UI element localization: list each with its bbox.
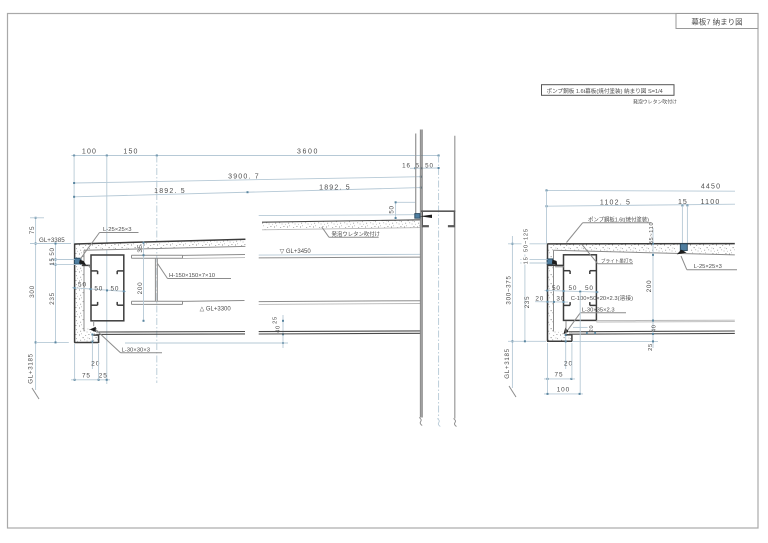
svg-text:25: 25 [99, 373, 108, 380]
label L-25x25x3 [80, 227, 138, 259]
label bright coating [582, 244, 633, 264]
svg-text:1892. 5: 1892. 5 [319, 184, 351, 191]
svg-text:ブライト墨打ち: ブライト墨打ち [601, 257, 633, 264]
svg-text:50: 50 [49, 247, 56, 255]
svg-text:40: 40 [652, 324, 658, 332]
extension line x=106.8 [106, 156, 108, 385]
GL+3185 right view [504, 348, 516, 397]
break squiggles [419, 418, 456, 427]
svg-text:25: 25 [273, 316, 279, 324]
svg-text:16: 16 [402, 162, 411, 169]
GL+3300 level line left segment [183, 300, 245, 303]
box bottom level lines right [596, 320, 734, 322]
wall double line [420, 130, 422, 418]
svg-text:20: 20 [589, 325, 595, 333]
svg-text:100: 100 [557, 387, 570, 394]
L-30 angle at box bottom [90, 321, 96, 332]
extension line x=546.5 [546, 190, 548, 243]
dimension row right: 1102.5/15/1100 [546, 199, 736, 207]
svg-text:50: 50 [425, 162, 434, 169]
centerline x=438.6 [438, 156, 440, 419]
legend box [542, 85, 678, 106]
dimension row: 100/150/3600 [72, 149, 440, 157]
svg-text:△ GL+3300: △ GL+3300 [200, 306, 232, 312]
dimension 50/50/50 right [545, 285, 600, 293]
svg-text:75: 75 [555, 372, 564, 379]
bottom dim 100 right [544, 387, 583, 395]
hanger channel at wall [421, 211, 455, 227]
svg-text:1100: 1100 [701, 199, 721, 206]
svg-text:L-25×25×3: L-25×25×3 [103, 227, 132, 233]
label H-150x150x7x10 [158, 264, 232, 280]
bottom dim 20 left [91, 334, 100, 370]
dimension 50 at wall top [259, 201, 416, 219]
dimension 20/30 right [535, 295, 568, 303]
dimension 16/5/50 [402, 162, 439, 169]
channel box assembly left [91, 255, 124, 321]
channel box assembly right [564, 255, 597, 321]
svg-text:発泡ウレタン吹付け: 発泡ウレタン吹付け [633, 98, 677, 105]
bottom dim 75 right [544, 343, 575, 394]
svg-text:GL+3185: GL+3185 [28, 353, 35, 384]
svg-text:35: 35 [137, 244, 144, 252]
dimension 35 [137, 242, 145, 258]
svg-text:235: 235 [524, 296, 531, 308]
svg-text:35~110: 35~110 [649, 222, 655, 245]
svg-text:GL+3385: GL+3385 [39, 237, 65, 244]
right vertical dim line 35~110/200/40/25 [646, 222, 657, 351]
label pump steel plate [567, 215, 652, 242]
dimension 3900.7 [73, 174, 422, 184]
dimension 25/40 right of box [125, 315, 288, 348]
svg-text:25: 25 [648, 343, 654, 351]
bottom edge double line right segment [259, 331, 421, 334]
svg-text:235: 235 [49, 292, 56, 305]
label GL+3300 [200, 306, 232, 312]
label L-30x35x2.3 [563, 307, 626, 334]
svg-text:50: 50 [78, 281, 87, 288]
svg-text:50: 50 [585, 285, 594, 292]
svg-text:200: 200 [646, 280, 653, 292]
anchor clip L-25 left [74, 258, 86, 266]
svg-text:50: 50 [110, 285, 119, 292]
foot level line right [572, 340, 658, 342]
svg-text:3600: 3600 [297, 149, 319, 156]
bottom edge double line right view [569, 331, 735, 334]
urethane band (stipple) [262, 220, 421, 230]
svg-text:50: 50 [94, 285, 103, 292]
wall line outer [415, 134, 417, 214]
svg-text:150: 150 [123, 149, 138, 156]
svg-text:4450: 4450 [701, 183, 721, 190]
svg-text:200: 200 [137, 282, 144, 295]
svg-text:▽ GL+3450: ▽ GL+3450 [280, 249, 312, 255]
extension line x=74 [73, 156, 75, 244]
svg-text:300: 300 [29, 285, 36, 298]
centerline x=156.8 [156, 156, 158, 384]
extension line x=682.4 [681, 205, 683, 243]
svg-text:15: 15 [678, 199, 688, 206]
svg-text:3900. 7: 3900. 7 [228, 174, 260, 181]
svg-text:300~375: 300~375 [505, 275, 512, 304]
anchor clip in slab right [677, 244, 688, 255]
svg-text:50: 50 [389, 205, 396, 213]
angle seat under clip [82, 265, 90, 267]
svg-text:50~125: 50~125 [524, 228, 530, 252]
anchor clip right wall [547, 259, 557, 265]
label C-100x50x20x2.3 [571, 294, 633, 302]
dimension 1892.5 x2 [73, 184, 422, 198]
svg-text:15: 15 [49, 257, 56, 265]
flange level lines to break [183, 255, 246, 259]
svg-text:100: 100 [82, 149, 97, 156]
svg-text:幕板7 納まり図: 幕板7 納まり図 [691, 17, 742, 27]
bottom dim 20 right [564, 334, 573, 369]
concrete slab left (stipple) [74, 239, 245, 343]
dimension 200 left [137, 257, 144, 322]
svg-text:15: 15 [524, 256, 530, 264]
svg-text:50: 50 [568, 285, 577, 292]
svg-text:ポンプ鋼板 1.6t幕板(焼付塗装) 納まり図 S=1/4: ポンプ鋼板 1.6t幕板(焼付塗装) 納まり図 S=1/4 [547, 87, 663, 95]
label L-25x25x3 right [681, 256, 737, 270]
GL+3300 level line right segment [259, 301, 421, 305]
GL+3450 level line [259, 249, 421, 258]
left side dims: 50 / 15 / 235 [49, 243, 80, 344]
left side dims: 75 / GL+3385 / 300 [28, 217, 71, 399]
anchor clip at wall [415, 214, 432, 219]
dimension row right: 4450 [546, 183, 736, 191]
svg-text:75: 75 [82, 373, 91, 380]
svg-text:50: 50 [552, 285, 561, 292]
mid extension line x=580.2 [579, 292, 581, 394]
dimension 300~375 between views [505, 236, 546, 348]
bottom edge double line left segment [96, 332, 245, 335]
svg-text:ポンプ鋼板1.6t(焼付塗装): ポンプ鋼板1.6t(焼付塗装) [588, 215, 649, 223]
H-beam H-150x150x7x10 [132, 255, 183, 304]
svg-text:75: 75 [29, 226, 36, 235]
title box [676, 14, 758, 29]
svg-text:30: 30 [556, 295, 565, 302]
svg-text:GL+3185: GL+3185 [504, 348, 511, 379]
angle seat under right clip [548, 265, 565, 266]
svg-text:1892. 5: 1892. 5 [154, 188, 186, 195]
label urethane spray [322, 227, 380, 238]
small 20 annotation [573, 325, 596, 334]
extension line x=687.4 [686, 205, 688, 243]
left vertical dims right view: 15 / 50~125 / 235 [520, 226, 547, 342]
concrete slab right (stipple) [547, 244, 735, 342]
label L-30x30x3 [96, 330, 162, 354]
dimension 50/50/50 left [72, 281, 126, 292]
svg-text:1102. 5: 1102. 5 [600, 200, 631, 207]
bottom dim 75/25 left [71, 344, 110, 381]
wall face line right [454, 136, 456, 419]
